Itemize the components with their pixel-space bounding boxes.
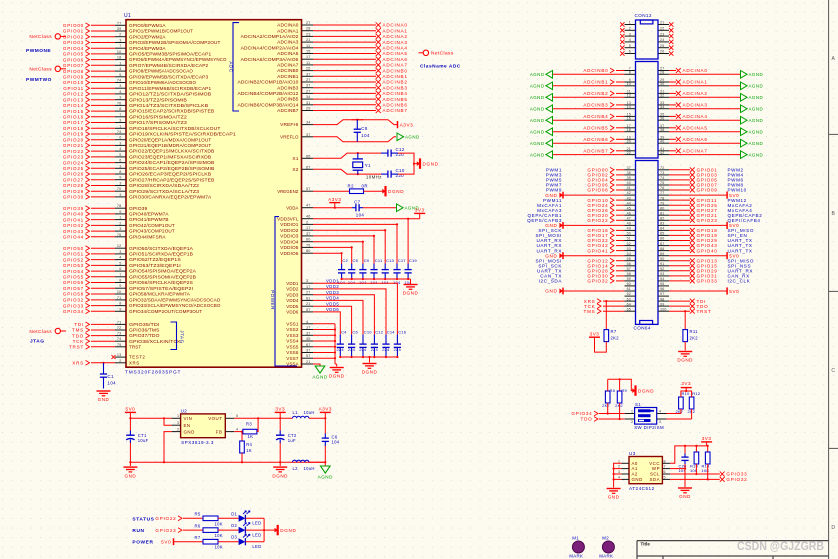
svg-text:GPIO41: GPIO41 (63, 217, 84, 222)
svg-text:85: 85 (660, 232, 664, 236)
wire ADCINB4 (616, 115, 625, 117)
wire R9 bottom (619, 403, 621, 419)
pin 1 of U3 (A0) (622, 462, 630, 464)
ground bus bottom (130, 461, 325, 463)
svg-text:4: 4 (119, 147, 121, 151)
wire TMS (603, 310, 625, 312)
net label ADCINB7 (376, 108, 381, 113)
pin VDDIO2 of U1 (302, 229, 314, 231)
wire ADCINB2 (616, 92, 625, 94)
ground AGND left (546, 94, 553, 102)
wire VDDIO4 (313, 241, 363, 243)
svg-text:1K: 1K (248, 434, 254, 439)
svg-text:VDD3VFL: VDD3VFL (277, 216, 299, 221)
ground AGND right (741, 128, 748, 136)
pin VDD3VFL of U1 (302, 218, 314, 220)
wire GPIO30 (616, 275, 625, 277)
svg-text:81: 81 (660, 211, 664, 215)
wire GPIO07 (669, 184, 690, 186)
wire to net label ADCINB2 (313, 81, 376, 83)
svg-text:31: 31 (306, 101, 311, 105)
svg-text:R3: R3 (246, 422, 252, 427)
wire LED to common (245, 517, 264, 519)
svg-text:3V3: 3V3 (415, 208, 425, 213)
svg-text:MARK: MARK (599, 554, 613, 559)
capacitor C20 104 (684, 446, 686, 454)
svg-text:3: 3 (119, 39, 121, 43)
svg-text:A2: A2 (632, 472, 638, 477)
svg-text:GPIO44: GPIO44 (63, 235, 84, 240)
pin 42 of CON64 (625, 194, 636, 196)
svg-text:GPIO22/EQEP1S/MCLKXA/SCITXDB: GPIO22/EQEP1S/MCLKXA/SCITXDB (129, 149, 214, 154)
wire LED to common (245, 541, 264, 543)
wire ADCINB0 (616, 70, 625, 72)
pin GPIO11 of U1 with net label (115, 87, 126, 89)
pin VDD4 of U1 (302, 299, 314, 301)
svg-text:9: 9 (119, 176, 121, 180)
svg-text:GPIO33: GPIO33 (697, 279, 718, 284)
svg-text:GPIO32: GPIO32 (63, 298, 84, 303)
pin VDDIO6 of U1 (302, 252, 314, 254)
pin 88 of CON64 (658, 250, 669, 252)
svg-text:75: 75 (117, 343, 122, 347)
svg-text:77: 77 (660, 191, 664, 195)
svg-text:A3V3: A3V3 (400, 122, 414, 127)
connector CON64 main section body (636, 161, 659, 325)
wire C20 to GND and WP (684, 464, 686, 487)
pin 2 of S1 (625, 418, 635, 420)
wire GPIO04 (616, 179, 625, 181)
svg-text:10K: 10K (215, 521, 223, 526)
wire ADCINA2 (669, 92, 676, 94)
net label GPIO33 (690, 279, 695, 284)
svg-text:ADCINA1: ADCINA1 (383, 28, 408, 33)
pin ADCINB2 of U1 (302, 81, 314, 83)
svg-text:104: 104 (332, 440, 340, 445)
svg-text:GPIO02: GPIO02 (63, 34, 84, 39)
ground DGND crystal (417, 161, 420, 166)
wire SDA to GPIO32 (670, 478, 720, 480)
svg-text:9: 9 (119, 284, 121, 288)
wire VSS3 (313, 334, 335, 336)
svg-text:GPIO20/EQEP1A/MDXA/COMP1OUT: GPIO20/EQEP1A/MDXA/COMP1OUT (129, 137, 212, 142)
wire to net label ADCINA3 (313, 41, 376, 43)
wire caps to DGND (398, 153, 414, 174)
svg-text:GPIO36/TMS: GPIO36/TMS (129, 328, 160, 333)
wire TDI (669, 300, 690, 302)
wire S1 pin3 to R12 (667, 418, 692, 420)
svg-text:18: 18 (117, 56, 122, 60)
svg-text:224: 224 (348, 347, 356, 352)
svg-text:ADCINB7: ADCINB7 (277, 108, 299, 113)
junction TRST pull (684, 310, 686, 312)
svg-text:60: 60 (306, 238, 311, 242)
wire to resistor (183, 517, 203, 519)
ground AGND left (546, 151, 553, 159)
svg-text:22: 22 (627, 151, 631, 155)
svg-text:GPIO50: GPIO50 (63, 246, 84, 251)
wire TCK (603, 305, 625, 307)
capacitor C13 104 (384, 264, 386, 270)
svg-text:GPIO6/EPWM4A/EPWMSYNCI/EPWMSYN: GPIO6/EPWM4A/EPWMSYNCI/EPWMSYNCO (129, 57, 227, 62)
wire R2 to DGND (364, 190, 384, 192)
wire AGND long right (669, 108, 741, 110)
ground AGND right (741, 151, 748, 159)
svg-text:15: 15 (306, 50, 311, 54)
svg-text:VDDIO5: VDDIO5 (280, 245, 299, 250)
wire 5V0 row right (669, 255, 727, 257)
svg-text:23: 23 (660, 32, 664, 36)
pin 81 of CON64 (658, 214, 669, 216)
svg-text:27: 27 (306, 89, 311, 93)
svg-text:VDDIO1: VDDIO1 (280, 222, 299, 227)
svg-text:GPIO58/MCLKRA/EPWM7A: GPIO58/MCLKRA/EPWM7A (129, 292, 190, 297)
pin GPIO21 of U1 with net label (115, 144, 126, 146)
svg-text:C2: C2 (342, 258, 348, 263)
svg-text:ADCINB5: ADCINB5 (583, 126, 608, 131)
pin 1 of S1 (625, 413, 635, 415)
net label GPIO23 (690, 218, 695, 223)
pin 40 of connector / AGND (658, 142, 669, 144)
svg-text:47: 47 (627, 217, 631, 221)
pin 3 EN of U2 (172, 424, 181, 426)
ground DGND at VSS bus (336, 364, 338, 367)
svg-text:56: 56 (627, 262, 631, 266)
svg-text:AGND: AGND (749, 118, 764, 123)
pin 35 of connector / net ADCINA4 (658, 115, 669, 117)
svg-text:VDD1: VDD1 (326, 278, 339, 283)
svg-text:2K2: 2K2 (611, 336, 620, 341)
wire X1 to cap level (313, 153, 381, 158)
svg-text:VDD6: VDD6 (286, 310, 299, 315)
svg-text:5V0: 5V0 (126, 407, 136, 412)
svg-text:73: 73 (660, 171, 664, 175)
connector CON12 top section body (636, 20, 659, 59)
svg-text:GPIO15: GPIO15 (63, 109, 84, 114)
wire VSS6 (313, 352, 335, 354)
wire XRS to R7 (605, 301, 607, 330)
svg-text:11: 11 (306, 44, 310, 48)
wire GND row (563, 194, 625, 196)
svg-text:32: 32 (660, 94, 664, 98)
pin 34 of connector / AGND (658, 108, 669, 110)
net label GPIO25 (690, 203, 695, 208)
pin 47 of CON64 (625, 219, 636, 221)
svg-text:3: 3 (629, 32, 631, 36)
ground DGND at R11 (678, 351, 692, 353)
svg-text:ADCINB3: ADCINB3 (383, 85, 408, 90)
pin 90 of CON64 (658, 260, 669, 262)
svg-text:VCC: VCC (649, 461, 660, 466)
svg-text:GPIO13/TZ2/SPISOMIB: GPIO13/TZ2/SPISOMIB (129, 97, 187, 102)
svg-text:TDO: TDO (581, 417, 593, 422)
pin 4 of U3 (GND) (622, 478, 630, 480)
svg-text:48: 48 (627, 222, 631, 226)
pin VSS2 of U1 (302, 329, 314, 331)
wire AGND long right (669, 154, 741, 156)
svg-text:GPIO14/TZ3/SCITXDB/SPICLKB: GPIO14/TZ3/SCITXDB/SPICLKB (129, 103, 208, 108)
svg-text:GPIO16: GPIO16 (63, 115, 84, 120)
svg-text:1: 1 (177, 414, 179, 418)
svg-text:AGND: AGND (312, 375, 327, 380)
svg-text:3V3: 3V3 (702, 436, 712, 441)
svg-text:VOUT: VOUT (208, 416, 222, 421)
svg-text:2: 2 (629, 27, 631, 31)
svg-text:1uF: 1uF (288, 438, 296, 443)
svg-text:96: 96 (660, 287, 664, 291)
svg-text:CON64: CON64 (634, 325, 651, 330)
svg-text:ADCINA5: ADCINA5 (683, 126, 708, 131)
svg-text:TMS: TMS (72, 328, 84, 333)
svg-text:GPIO34/COMP2OUT/COMP3OUT: GPIO34/COMP2OUT/COMP3OUT (129, 309, 202, 314)
svg-text:GPIO40: GPIO40 (63, 212, 84, 217)
net label GPIO13 (690, 258, 695, 263)
net label GPIO07 (690, 183, 695, 188)
svg-text:10: 10 (117, 50, 122, 54)
svg-text:2: 2 (631, 420, 633, 424)
net label GPIO05 (690, 178, 695, 183)
svg-text:5: 5 (119, 73, 121, 77)
wire XRS (603, 300, 625, 302)
pin 8 of connector / AGND (625, 73, 636, 75)
wire to net label ADCINB4 (313, 92, 376, 94)
pin ADCINB3 of U1 (302, 87, 314, 89)
net label GPIO03 (690, 173, 695, 178)
svg-text:88: 88 (660, 247, 664, 251)
pin 87 of CON64 (658, 245, 669, 247)
svg-text:72: 72 (660, 166, 664, 170)
capacitor C16 224 (396, 335, 398, 345)
svg-text:GPIO27: GPIO27 (63, 177, 84, 182)
pin 65 of CON64 (625, 310, 636, 312)
wire GND row (563, 224, 625, 226)
svg-text:77: 77 (117, 21, 122, 25)
pin 1 of CON12 (625, 24, 636, 26)
net label GPIO33 (720, 472, 725, 477)
svg-text:72: 72 (117, 326, 122, 330)
pin VREFLO of U1 (302, 136, 314, 138)
svg-text:78: 78 (117, 204, 122, 208)
svg-text:4: 4 (119, 90, 121, 94)
svg-text:DGND: DGND (272, 473, 288, 478)
svg-text:GND: GND (632, 477, 643, 482)
pin 9 of connector / net ADCINB1 (625, 81, 636, 83)
svg-text:GND: GND (679, 494, 691, 499)
pin 5 of U3 (SDA) (662, 478, 670, 480)
net label GPIO29 (690, 238, 695, 243)
svg-text:I2C_CLK: I2C_CLK (728, 279, 751, 284)
VSS ground bus (334, 324, 336, 364)
svg-text:ADCINA2: ADCINA2 (683, 91, 708, 96)
capacitor C11 104 (373, 264, 375, 270)
svg-text:ADCINA4: ADCINA4 (683, 114, 708, 119)
svg-text:50: 50 (627, 232, 631, 236)
svg-text:M1: M1 (572, 536, 579, 541)
pin ADCINB0 of U1 (302, 70, 314, 72)
pin GPIO02 of U1 with net label (115, 36, 126, 38)
svg-text:VDDIO3: VDDIO3 (280, 234, 299, 239)
svg-text:7: 7 (119, 273, 121, 277)
svg-text:TMS320F28035PGT: TMS320F28035PGT (125, 370, 181, 376)
svg-text:LED: LED (252, 544, 261, 549)
svg-text:TMS: TMS (584, 309, 596, 314)
svg-text:ADCINB4/COMP2B/AIO12: ADCINB4/COMP2B/AIO12 (238, 91, 300, 96)
svg-text:SW DIP2/SM: SW DIP2/SM (634, 425, 664, 430)
pin 75 of CON64 (658, 184, 669, 186)
svg-text:GPIO09: GPIO09 (697, 188, 718, 193)
svg-text:VIN: VIN (184, 416, 193, 421)
svg-text:2: 2 (119, 33, 121, 37)
svg-text:47: 47 (306, 204, 311, 208)
wire ADCINA1 (669, 81, 676, 83)
svg-text:10uH: 10uH (304, 466, 315, 471)
svg-text:AGND: AGND (318, 475, 333, 480)
svg-text:26: 26 (660, 50, 664, 54)
net label GPIO32 (720, 477, 725, 482)
svg-text:C10: C10 (396, 168, 405, 173)
wire R13 to SCL (695, 464, 697, 474)
pin VREFHI of U1 (302, 124, 314, 126)
junction pulldown 1 (607, 412, 609, 414)
pin GPIO10 of U1 with net label (115, 82, 126, 84)
svg-text:8: 8 (629, 71, 631, 75)
svg-text:10K: 10K (215, 545, 223, 550)
svg-text:10K: 10K (215, 533, 223, 538)
pin 23 of CON12 (658, 35, 669, 37)
svg-text:3: 3 (618, 470, 620, 474)
wire ADCINA7 (669, 150, 676, 152)
pin VDD1 of U1 (302, 282, 314, 284)
pin 14 of connector / AGND (625, 108, 636, 110)
wire TDO (669, 305, 690, 307)
wire GPIO31 (669, 275, 690, 277)
svg-text:ADCINB2: ADCINB2 (383, 80, 408, 85)
power port GND left (562, 252, 564, 259)
svg-text:GPIO34: GPIO34 (571, 411, 592, 416)
svg-text:C: C (831, 368, 835, 374)
svg-text:GPIO0/EPWM1A: GPIO0/EPWM1A (129, 23, 166, 28)
svg-text:ADCINB6: ADCINB6 (583, 137, 608, 142)
svg-text:65: 65 (306, 154, 311, 158)
bracket JTAG group (171, 322, 177, 350)
net label ADCINA5 (376, 51, 381, 56)
wire GPIO17 (616, 234, 625, 236)
ground DGND at VREGENZ (382, 189, 385, 194)
svg-text:6: 6 (629, 50, 631, 54)
pin VDDA of U1 (302, 207, 314, 209)
svg-text:C16: C16 (398, 330, 407, 335)
sheet border right edge (828, 0, 830, 559)
pin 93 of CON64 (658, 275, 669, 277)
svg-text:1: 1 (629, 21, 631, 25)
resistor R13 10K (695, 446, 697, 452)
pin GPIO44 of U1 with net label (115, 236, 126, 238)
svg-text:TRST: TRST (697, 309, 712, 314)
pin 84 of CON64 (658, 229, 669, 231)
junction rail C20 (684, 445, 686, 447)
svg-text:XRS: XRS (129, 360, 140, 365)
pin GPIO06 of U1 with net label (115, 59, 126, 61)
svg-text:C19: C19 (409, 258, 418, 263)
svg-text:3V3: 3V3 (681, 381, 691, 386)
pin 13 of connector / net ADCINB3 (625, 104, 636, 106)
pin GPIO07 of U1 with net label (115, 64, 126, 66)
svg-text:12: 12 (117, 244, 122, 248)
svg-text:2K7: 2K7 (602, 403, 610, 408)
svg-text:PWMONE: PWMONE (26, 48, 51, 54)
pin VSS5 of U1 (302, 346, 314, 348)
svg-text:ADCINA4: ADCINA4 (383, 46, 408, 51)
wire ADCINA5 (669, 127, 676, 129)
svg-text:1: 1 (618, 459, 620, 463)
wire to net label ADCINA7 (313, 64, 376, 66)
svg-text:GPIO26: GPIO26 (63, 172, 84, 177)
net label GPIO43 (690, 243, 695, 248)
svg-text:3: 3 (119, 84, 121, 88)
svg-text:8: 8 (119, 170, 121, 174)
wire VDDIO6 (313, 252, 342, 254)
pin GPIO20 of U1 with net label (115, 139, 126, 141)
pin VSS4 of U1 (302, 340, 314, 342)
svg-text:63: 63 (627, 297, 631, 301)
pin 91 of CON64 (658, 265, 669, 267)
pin 21 of connector / net ADCINB7 (625, 150, 636, 152)
wire R9 top (619, 379, 621, 391)
pin 2 GND of U2 (172, 431, 181, 433)
svg-text:R10: R10 (682, 391, 691, 396)
svg-text:AGND: AGND (749, 84, 764, 89)
svg-text:GPIO57/SPISTEA/EQEP2I: GPIO57/SPISTEA/EQEP2I (129, 286, 193, 291)
pin 78 of CON64 (658, 199, 669, 201)
svg-text:GPIO28/SCIRXDA/SDAA/TZ2: GPIO28/SCIRXDA/SDAA/TZ2 (129, 183, 200, 188)
ground GND below C1 (97, 390, 111, 392)
svg-text:20: 20 (627, 139, 631, 143)
wire R8 bottom (607, 403, 609, 414)
net label ADCINB5 (376, 97, 381, 102)
net label TDI (690, 299, 695, 304)
wire AGND long (553, 154, 625, 156)
pin 89 of CON64 (658, 255, 669, 257)
wire GPIO12 (616, 260, 625, 262)
pin 72 of CON64 (658, 169, 669, 171)
pin GPIO01 of U1 with net label (115, 30, 126, 32)
svg-text:59: 59 (627, 277, 631, 281)
wire GPIO33 (669, 280, 690, 282)
svg-text:42: 42 (660, 151, 664, 155)
pin 86 of CON64 (658, 240, 669, 242)
wire ADCINB5 (616, 127, 625, 129)
ground AGND right (741, 139, 748, 147)
net label ADCINB2 (376, 79, 381, 84)
wire GPIO06 (616, 184, 625, 186)
pin 25 of CON12 (658, 47, 669, 49)
svg-text:GND: GND (608, 495, 620, 500)
svg-text:94: 94 (660, 277, 664, 281)
wire L2 to AGND node (309, 461, 325, 463)
wire GPIO08 (616, 189, 625, 191)
svg-text:VREFLO: VREFLO (280, 134, 299, 139)
svg-text:3V3: 3V3 (590, 331, 600, 336)
svg-text:XRS: XRS (72, 361, 84, 366)
svg-text:224: 224 (359, 347, 367, 352)
ground AGND at VREFLO (397, 133, 404, 141)
svg-text:57: 57 (306, 354, 311, 358)
pin 98 of CON64 (658, 300, 669, 302)
svg-text:41: 41 (627, 186, 631, 190)
svg-text:6: 6 (119, 159, 121, 163)
svg-text:2: 2 (177, 428, 179, 432)
svg-text:4: 4 (618, 475, 620, 479)
